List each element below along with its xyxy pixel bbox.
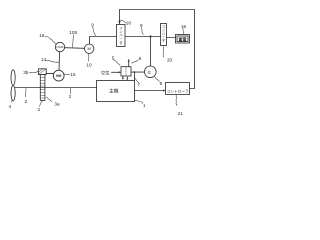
- leader 3: [39, 101, 42, 107]
- svg-text:2: 2: [69, 94, 72, 99]
- turbo-engine tick charge air: [122, 76, 124, 78]
- leader 1: [135, 100, 143, 103]
- converter U20 box: [161, 24, 167, 46]
- svg-text:20: 20: [167, 58, 173, 63]
- svg-text:10: 10: [86, 62, 92, 67]
- leader 4: [11, 100, 13, 103]
- svg-text:16: 16: [181, 24, 187, 29]
- svg-text:3b: 3b: [23, 70, 29, 75]
- leader 20: [162, 46, 165, 57]
- leader 14: [45, 60, 58, 62]
- svg-text:9: 9: [91, 22, 94, 27]
- node junction on bus: [149, 35, 151, 37]
- wire 8 engine to controller: [135, 90, 164, 92]
- svg-text:19: 19: [39, 33, 45, 38]
- propeller blade lower: [11, 86, 15, 101]
- leader 6: [132, 60, 139, 64]
- turbo-engine tick exhaust: [126, 78, 128, 80]
- wire FOHP to M: [65, 47, 85, 50]
- motor HM circle: [53, 70, 64, 81]
- svg-text:タ: タ: [162, 38, 165, 43]
- svg-text:主機: 主機: [109, 87, 119, 94]
- wire engine top link: [134, 72, 136, 80]
- gear pinion block 3b: [38, 69, 46, 75]
- svg-text:3: 3: [37, 107, 40, 112]
- leader 3a: [47, 97, 52, 102]
- svg-text:8: 8: [160, 81, 163, 86]
- svg-text:5: 5: [112, 55, 115, 60]
- leader 10S: [72, 35, 73, 47]
- svg-text:タ: タ: [119, 40, 122, 45]
- leader 18: [121, 20, 127, 23]
- svg-text:14: 14: [41, 57, 47, 62]
- leader 16: [183, 28, 184, 34]
- node engine-shaft junction: [134, 71, 136, 73]
- leader 5: [114, 59, 121, 65]
- propeller blade upper: [11, 70, 15, 85]
- wire HM to pinion: [46, 73, 53, 75]
- battery 16 box: [176, 35, 190, 44]
- leader 7: [135, 78, 139, 83]
- exhaust arrow up: [128, 61, 130, 67]
- leader 9 left: [93, 27, 96, 36]
- inverter U18 box: [117, 25, 126, 47]
- wire engine shaft to G: [131, 71, 145, 73]
- svg-text:4: 4: [9, 104, 12, 109]
- leader 2 right: [69, 88, 71, 94]
- wire top rail: [120, 10, 195, 89]
- svg-text:6: 6: [139, 56, 142, 61]
- svg-text:1: 1: [143, 103, 146, 108]
- gear wheel 3a: [40, 75, 45, 101]
- leader 21: [175, 95, 178, 106]
- svg-text:18: 18: [126, 21, 132, 26]
- svg-text:蓄電: 蓄電: [179, 36, 187, 42]
- leader 3b: [29, 71, 38, 73]
- svg-text:21: 21: [178, 111, 184, 116]
- leader 9 right: [141, 27, 143, 34]
- svg-text:G: G: [148, 70, 151, 75]
- label inverter vertical text: [119, 26, 123, 44]
- svg-text:コントローラ: コントローラ: [167, 89, 189, 94]
- svg-text:HM: HM: [56, 74, 61, 78]
- svg-text:10S: 10S: [69, 30, 77, 35]
- leader 15: [64, 73, 70, 76]
- generator G circle: [145, 66, 157, 78]
- wire DC bus: [90, 37, 117, 45]
- svg-text:7: 7: [137, 82, 140, 87]
- svg-text:9: 9: [140, 23, 143, 28]
- leader 10: [87, 54, 89, 61]
- svg-text:3a: 3a: [54, 101, 60, 106]
- wire FOHP down to HM: [58, 52, 61, 70]
- svg-text:FOHP: FOHP: [56, 45, 63, 49]
- wire arrow into inverter top: [119, 21, 121, 24]
- pump FOHP circle: [55, 42, 64, 51]
- svg-text:15: 15: [70, 72, 76, 77]
- leader 19: [45, 36, 56, 44]
- motor M circle: [85, 44, 94, 53]
- leader 2 left: [24, 88, 27, 97]
- svg-text:2: 2: [25, 99, 28, 104]
- svg-text:空気: 空気: [101, 69, 110, 76]
- leader 8: [154, 76, 159, 81]
- wire riser to generator G: [150, 37, 152, 67]
- controller box: [166, 83, 190, 95]
- svg-text:M: M: [88, 46, 91, 51]
- label converter vertical text: [162, 25, 166, 43]
- wire bus between boxes: [125, 36, 161, 38]
- main engine box: [97, 81, 135, 102]
- wire converter to battery: [167, 37, 176, 39]
- wire propeller shaft: [15, 87, 96, 89]
- air inlet arrow: [112, 71, 119, 73]
- turbocharger box: [121, 67, 131, 76]
